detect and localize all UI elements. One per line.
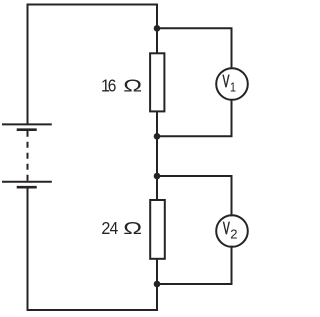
svg-text:Ω: Ω — [123, 218, 142, 239]
svg-text:V: V — [223, 72, 230, 92]
svg-text:Ω: Ω — [123, 75, 142, 96]
svg-text:6: 6 — [108, 75, 117, 95]
svg-text:1: 1 — [230, 79, 236, 94]
svg-text:V: V — [223, 219, 230, 239]
svg-text:2: 2 — [230, 227, 237, 242]
svg-text:4: 4 — [110, 218, 119, 238]
